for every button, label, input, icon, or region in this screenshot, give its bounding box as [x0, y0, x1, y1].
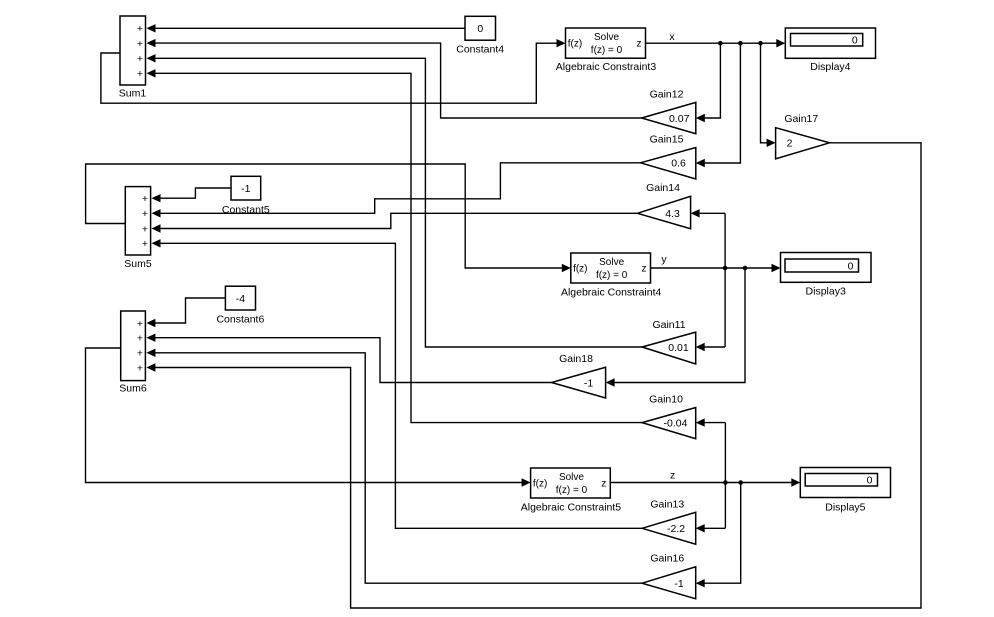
svg-text:+: + — [137, 362, 143, 374]
node z label — [670, 470, 675, 482]
wire Gain18 to Sum6 in2 — [146, 334, 551, 383]
svg-text:f(z): f(z) — [533, 479, 547, 490]
svg-text:0: 0 — [848, 260, 854, 272]
svg-text:Solve: Solve — [559, 472, 584, 483]
svg-text:Gain18: Gain18 — [559, 353, 593, 365]
wire Constant5 to Sum5 in1 — [152, 188, 232, 202]
wire Gain12 to Sum1 in2 — [147, 39, 642, 118]
svg-text:z: z — [601, 479, 606, 490]
svg-text:Gain11: Gain11 — [652, 319, 685, 331]
gain block Gain18 value -1 — [552, 353, 606, 398]
display block Display3 — [781, 253, 872, 298]
wire y branch to Gain18 in — [606, 268, 745, 387]
display block Display4 — [785, 28, 875, 73]
svg-text:Constant6: Constant6 — [216, 314, 264, 326]
svg-text:Algebraic Constraint5: Algebraic Constraint5 — [521, 502, 622, 514]
svg-text:0: 0 — [477, 23, 483, 35]
wire Gain15 to Sum5 in2 — [152, 163, 641, 218]
svg-text:4.3: 4.3 — [665, 208, 680, 220]
svg-text:Gain16: Gain16 — [650, 553, 684, 565]
wire Constant4 to Sum1 in1 — [147, 24, 466, 32]
svg-text:y: y — [661, 254, 667, 266]
svg-text:0.07: 0.07 — [669, 113, 690, 125]
svg-text:-0.04: -0.04 — [664, 417, 688, 429]
sum block Sum5 — [124, 187, 152, 270]
wire z branch stub to Gain13 in — [696, 524, 726, 532]
wire Gain11 to Sum1 in3 — [147, 54, 643, 347]
wire Sum5 out to Algebraic Constraint4 in — [86, 164, 571, 272]
gain block Gain11 value 0.01 — [642, 319, 696, 364]
svg-text:Constant4: Constant4 — [456, 44, 504, 56]
wire y branch stub to Gain11 in — [696, 343, 725, 351]
svg-text:x: x — [669, 31, 675, 43]
svg-text:-1: -1 — [584, 377, 593, 389]
wire Sum6 out to Algebraic Constraint5 in — [86, 348, 531, 487]
svg-text:Display3: Display3 — [806, 286, 846, 298]
svg-text:+: + — [137, 333, 143, 345]
svg-text:f(z) = 0: f(z) = 0 — [591, 45, 623, 56]
svg-text:Constant5: Constant5 — [222, 204, 270, 216]
wire Gain13 to Sum5 in4 — [152, 239, 643, 528]
svg-text:Gain12: Gain12 — [650, 89, 684, 101]
svg-text:0: 0 — [867, 475, 873, 487]
wire node y: Algebraic Constraint4 out to Display3 — [651, 264, 781, 272]
gain block Gain15 value 0.6 — [641, 134, 696, 180]
svg-text:Display4: Display4 — [810, 61, 850, 73]
svg-text:0: 0 — [852, 35, 858, 47]
sum block Sum1 — [119, 16, 147, 100]
wire Sum1 out to Algebraic Constraint3 in — [101, 39, 566, 103]
svg-text:+: + — [137, 38, 143, 50]
wire x branch to Gain15 in — [696, 43, 741, 167]
svg-text:Gain13: Gain13 — [650, 498, 684, 510]
svg-text:Algebraic Constraint3: Algebraic Constraint3 — [556, 61, 657, 73]
wire Constant6 to Sum6 in1 — [146, 298, 225, 327]
wire z branch vertical to Gain10 and Gain13 — [724, 423, 726, 529]
constant block Constant6 value -4 — [216, 286, 264, 325]
node x label — [669, 31, 675, 43]
svg-text:Display5: Display5 — [825, 502, 865, 514]
svg-text:+: + — [137, 53, 143, 65]
svg-text:Solve: Solve — [594, 32, 619, 43]
svg-text:+: + — [142, 238, 148, 250]
wire y branch vertical to Gain14 and Gain11 — [724, 213, 726, 347]
svg-text:f(z): f(z) — [573, 264, 587, 275]
svg-text:Gain10: Gain10 — [649, 394, 683, 406]
wire x branch to Gain12 in — [696, 43, 721, 122]
wire y branch stub to Gain14 in — [691, 209, 726, 217]
svg-text:+: + — [142, 193, 148, 205]
svg-text:+: + — [137, 68, 143, 80]
gain block Gain16 value -1 — [642, 553, 696, 599]
algebraic constraint block Algebraic Constraint4 — [561, 253, 662, 299]
svg-text:z: z — [637, 39, 642, 50]
wire z branch stub to Gain10 in — [696, 418, 726, 426]
wire Gain14 to Sum5 in3 — [152, 213, 638, 232]
svg-text:z: z — [670, 470, 675, 482]
algebraic constraint block Algebraic Constraint3 — [556, 28, 657, 73]
constant block Constant5 value -1 — [222, 176, 270, 216]
svg-text:+: + — [142, 223, 148, 235]
gain block Gain12 value 0.07 — [642, 89, 696, 134]
svg-text:f(z) = 0: f(z) = 0 — [596, 270, 628, 281]
algebraic constraint block Algebraic Constraint5 — [521, 468, 622, 514]
gain block Gain13 value -2.2 — [642, 498, 696, 544]
svg-text:0.01: 0.01 — [668, 342, 689, 354]
svg-text:2: 2 — [787, 138, 793, 150]
svg-text:+: + — [137, 23, 143, 35]
svg-text:Gain15: Gain15 — [650, 134, 684, 146]
svg-text:f(z) = 0: f(z) = 0 — [556, 485, 588, 496]
display block Display5 — [800, 468, 890, 514]
svg-text:Sum1: Sum1 — [119, 88, 147, 100]
svg-text:-2.2: -2.2 — [667, 523, 685, 535]
wire x branch to Gain17 in — [761, 43, 776, 147]
constant block Constant4 value 0 — [456, 16, 504, 55]
svg-text:-1: -1 — [241, 183, 250, 195]
svg-text:z: z — [642, 264, 647, 275]
svg-text:-4: -4 — [236, 293, 245, 305]
gain block Gain14 value 4.3 — [637, 182, 690, 229]
wire Gain10 to Sum1 in4 — [147, 69, 643, 423]
svg-text:+: + — [137, 318, 143, 330]
svg-text:+: + — [142, 208, 148, 220]
sum block Sum6 — [119, 311, 147, 395]
wire Gain17 to Sum6 in4 — [146, 143, 921, 608]
svg-text:Gain17: Gain17 — [784, 113, 818, 125]
svg-text:+: + — [137, 348, 143, 360]
wire node z: Algebraic Constraint5 out to Display5 — [610, 478, 800, 486]
svg-text:0.6: 0.6 — [671, 158, 686, 170]
svg-text:f(z): f(z) — [568, 39, 582, 50]
svg-text:Algebraic Constraint4: Algebraic Constraint4 — [561, 287, 662, 299]
wire z branch to Gain16 in — [696, 483, 741, 588]
gain block Gain10 value -0.04 — [642, 394, 696, 439]
wire node x: Algebraic Constraint3 out to Display4 — [646, 39, 786, 47]
svg-text:Sum5: Sum5 — [124, 258, 152, 270]
svg-text:Gain14: Gain14 — [646, 182, 680, 194]
svg-text:Solve: Solve — [599, 257, 624, 268]
svg-text:Sum6: Sum6 — [119, 383, 147, 395]
svg-text:-1: -1 — [674, 578, 683, 590]
wire Gain16 to Sum6 in3 — [146, 349, 642, 584]
node y label — [661, 254, 667, 266]
gain block Gain17 value 2 — [776, 113, 830, 159]
